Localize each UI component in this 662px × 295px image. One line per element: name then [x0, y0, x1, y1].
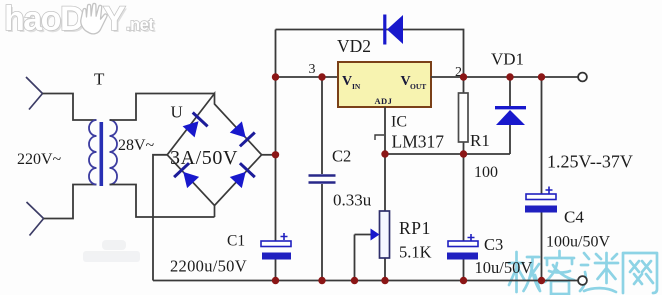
wire vertical line A (input rail) — [275, 30, 277, 281]
svg-text:100u/50V: 100u/50V — [546, 234, 610, 251]
svg-text:U: U — [171, 103, 183, 122]
svg-text:0.33u: 0.33u — [333, 191, 372, 210]
svg-text:VD1: VD1 — [491, 50, 524, 69]
potentiometer RP1 — [384, 154, 386, 281]
pointer tick for IC label — [375, 135, 384, 140]
char 客 — [545, 251, 574, 294]
wire primary bottom — [44, 185, 97, 219]
char 迷 — [580, 253, 618, 292]
svg-text:220V~: 220V~ — [17, 151, 62, 168]
potentiometer RP1 wiper arrow — [355, 234, 372, 236]
char 极 — [509, 252, 540, 292]
wire bridge left vertex to bottom rail — [153, 155, 167, 281]
node junction dots — [272, 73, 545, 284]
svg-text:5.1K: 5.1K — [399, 243, 432, 262]
transformer T secondary coil — [110, 120, 118, 185]
bridge rectifier U diamond outline — [167, 94, 261, 218]
svg-text:3A/50V: 3A/50V — [170, 147, 238, 169]
resistor R1 — [463, 77, 465, 154]
bridge diode bottom-right — [230, 163, 255, 188]
svg-text:1.25V--37V: 1.25V--37V — [547, 152, 633, 172]
op-amp regulator U1 LM317 body — [338, 62, 431, 107]
wire ADJ row — [385, 153, 510, 155]
svg-text:IN: IN — [352, 82, 361, 91]
diode VD2 — [385, 15, 403, 45]
watermark 极客迷网 (bottom right, light cyan) — [509, 251, 657, 294]
svg-text:T: T — [94, 70, 105, 89]
wire secondary top — [110, 94, 215, 121]
svg-text:C2: C2 — [332, 147, 351, 166]
capacitor C3 (electrolytic) — [463, 154, 465, 281]
svg-text:RP1: RP1 — [399, 218, 431, 238]
capacitor C1 (electrolytic) — [261, 233, 291, 260]
svg-text:100: 100 — [474, 164, 498, 181]
bridge diode top-right — [230, 121, 255, 146]
input terminal fork (bottom) — [27, 202, 44, 236]
wire bridge right vertex to node A — [262, 154, 276, 156]
svg-text:OUT: OUT — [410, 82, 426, 91]
wire ADJ stub — [384, 107, 386, 154]
wire primary top — [43, 94, 97, 121]
svg-text:C1: C1 — [227, 233, 245, 250]
watermark Baidu (bottom left, very faint) — [83, 240, 140, 262]
wire bottom rail — [153, 280, 579, 282]
svg-text:Y: Y — [103, 0, 126, 38]
svg-text:LM317: LM317 — [392, 132, 445, 152]
transformer T core — [100, 122, 104, 186]
wire VOUT row — [431, 76, 579, 78]
input terminal fork (top) — [26, 77, 43, 110]
bridge diode bottom-left — [174, 163, 199, 188]
svg-text:C4: C4 — [564, 208, 584, 227]
svg-text:IC: IC — [391, 114, 407, 131]
output terminal (top) — [578, 73, 587, 82]
watermark logo hand glyph — [81, 3, 107, 33]
svg-text:28V~: 28V~ — [118, 137, 155, 154]
svg-text:.net: .net — [126, 16, 154, 34]
char 网 — [623, 253, 657, 293]
svg-text:ADJ: ADJ — [375, 96, 393, 106]
capacitor C2 plates — [309, 176, 336, 183]
svg-text:2200u/50V: 2200u/50V — [170, 257, 247, 276]
svg-text:R1: R1 — [470, 131, 490, 150]
svg-text:3: 3 — [309, 62, 316, 77]
wire pin3 row — [276, 76, 339, 78]
watermark haoDIY.net logo (top left, white with grey outline) — [6, 2, 156, 40]
wire top rail to VOUT — [276, 30, 464, 78]
capacitor C2 branch wire — [321, 77, 323, 281]
output terminal (bottom) — [578, 276, 587, 285]
svg-text:C3: C3 — [484, 235, 503, 254]
capacitor C4 (electrolytic) — [541, 77, 543, 281]
svg-text:V: V — [342, 74, 352, 89]
bridge diode top-left — [183, 113, 208, 138]
svg-text:haoD: haoD — [4, 0, 84, 38]
svg-text:VD2: VD2 — [337, 36, 371, 56]
transformer T primary coil — [89, 120, 97, 185]
wire secondary bottom — [110, 185, 215, 218]
diode VD1 — [509, 77, 511, 154]
svg-text:10u/50V: 10u/50V — [475, 258, 533, 277]
